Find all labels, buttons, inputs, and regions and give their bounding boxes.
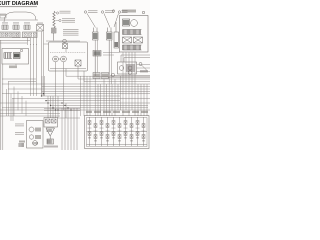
svg-text:CUIT DIAGRAM: CUIT DIAGRAM — [0, 1, 39, 7]
